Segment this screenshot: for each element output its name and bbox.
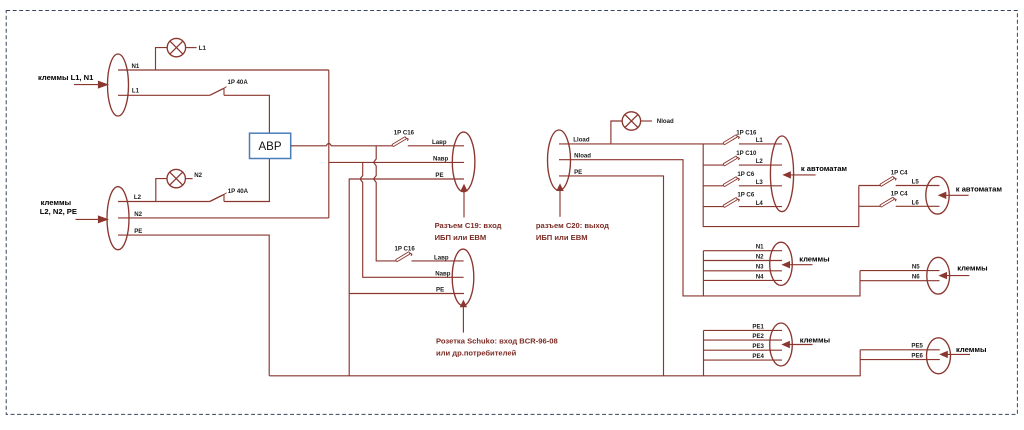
wire N comb riser xyxy=(702,251,704,296)
svg-text:1P C10: 1P C10 xyxy=(736,150,757,157)
svg-text:N5: N5 xyxy=(912,264,920,271)
wire PE C20 (down to PE bus) xyxy=(559,176,664,376)
wire QF4 to Schuko Lavr pin xyxy=(412,260,464,262)
svg-text:PE: PE xyxy=(435,172,443,179)
svg-text:L3: L3 xyxy=(756,179,764,186)
svg-text:Розетка Schuko: вход BCR-96-08: Розетка Schuko: вход BCR-96-08 xyxy=(436,337,558,346)
breaker QF3 1P C16 (C19 input) xyxy=(392,137,408,147)
svg-text:АВР: АВР xyxy=(258,141,281,153)
wire to pin L2 xyxy=(739,164,782,166)
wire PE6 xyxy=(860,359,940,361)
svg-text:L2: L2 xyxy=(756,158,764,165)
breaker QF1 1P 40A xyxy=(210,87,227,96)
arrow to C20 ellipse xyxy=(556,183,563,216)
svg-text:Lload: Lload xyxy=(573,137,590,144)
wire N6 xyxy=(860,280,940,282)
wire PE4 xyxy=(704,359,783,361)
wire N3 xyxy=(703,270,782,272)
wire N1/N2 vertical bus xyxy=(328,70,330,218)
wire dropper Lavr to Schuko breaker (hops over Navr and PE) xyxy=(374,146,396,261)
svg-text:клеммы: клеммы xyxy=(799,255,829,264)
svg-text:Nload: Nload xyxy=(574,153,591,160)
lamp HL2 xyxy=(156,169,193,201)
arrow клеммы (into X9) xyxy=(938,272,969,279)
breaker 1P C4 (row L5) xyxy=(880,176,896,186)
svg-text:клеммы: клеммы xyxy=(957,264,987,273)
arrow into connector X2 xyxy=(76,215,110,223)
wire N1 xyxy=(118,69,329,71)
wire Lload distribution bus xyxy=(703,144,859,227)
wire ABP output Lavr (hop over N bus) xyxy=(291,144,393,146)
svg-text:N6: N6 xyxy=(912,274,920,281)
arrow into connector X1 xyxy=(74,81,109,89)
svg-text:PE: PE xyxy=(574,169,582,176)
svg-text:1P C6: 1P C6 xyxy=(737,171,754,178)
svg-text:L6: L6 xyxy=(912,199,920,206)
svg-text:L4: L4 xyxy=(756,200,764,207)
svg-text:PE: PE xyxy=(436,287,444,294)
wire L2 xyxy=(118,201,210,203)
breaker 1P C10 (row L2) xyxy=(723,156,739,166)
connector X3 (разъем C19 ellipse) xyxy=(452,132,475,192)
svg-text:1P 40A: 1P 40A xyxy=(228,188,249,195)
breaker QF2 1P 40A xyxy=(210,193,227,202)
wire N2 xyxy=(703,260,782,262)
arrow к автоматам (into X7) xyxy=(938,192,969,199)
svg-text:L1: L1 xyxy=(199,45,207,52)
label Розетка Schuko xyxy=(436,337,558,358)
svg-text:L5: L5 xyxy=(912,179,920,186)
svg-text:ИБП или ЕВМ: ИБП или ЕВМ xyxy=(536,233,588,242)
wire PE5 xyxy=(860,349,940,351)
arrow клеммы (into X11) xyxy=(939,351,970,358)
label клеммы L2, N2, PE xyxy=(40,198,77,216)
svg-text:1P C6: 1P C6 xyxy=(737,192,754,199)
svg-text:N2: N2 xyxy=(756,253,764,260)
svg-text:1P 40A: 1P 40A xyxy=(228,79,249,86)
svg-text:PE6: PE6 xyxy=(911,353,923,360)
svg-text:N2: N2 xyxy=(194,172,202,179)
wire to pin L6 xyxy=(896,205,940,207)
svg-text:L2, N2, PE: L2, N2, PE xyxy=(40,207,77,216)
svg-text:N1: N1 xyxy=(756,244,764,251)
breaker 1P C4 (row L6) xyxy=(880,197,896,207)
wire N2 xyxy=(118,217,329,219)
wire to pin L4 xyxy=(739,206,782,208)
svg-text:клеммы: клеммы xyxy=(800,335,830,344)
wire N1 xyxy=(703,250,782,252)
svg-text:L2: L2 xyxy=(134,194,142,201)
svg-text:клеммы L1, N1: клеммы L1, N1 xyxy=(38,73,94,82)
label Разъем C19 xyxy=(435,221,502,242)
connector X1 (клеммы L1,N1 ellipse) xyxy=(108,54,129,116)
wire to pin L5 xyxy=(896,185,940,187)
wire PE1 xyxy=(704,329,783,331)
svg-text:1P C16: 1P C16 xyxy=(395,245,416,252)
svg-text:1P C4: 1P C4 xyxy=(891,170,908,177)
wire N4 xyxy=(703,279,782,281)
svg-text:или др.потребителей: или др.потребителей xyxy=(436,349,517,358)
wire to pin L1 xyxy=(739,143,782,145)
wire stub to breaker row L3 xyxy=(703,185,723,187)
connector X6 (к автоматам ellipse L1-L4) xyxy=(770,136,793,212)
wire L1 xyxy=(118,94,210,96)
wire dropper Navr to Schuko (hops over PE) xyxy=(360,162,464,277)
connector X10 (клеммы ellipse PE1-PE4) xyxy=(770,323,793,366)
svg-text:N1: N1 xyxy=(132,63,140,70)
svg-text:к автоматам: к автоматам xyxy=(956,184,1003,193)
svg-text:PE1: PE1 xyxy=(752,323,764,330)
svg-text:PE4: PE4 xyxy=(752,353,764,360)
arrow клеммы (into X10) xyxy=(781,341,812,348)
svg-text:PE3: PE3 xyxy=(752,343,764,350)
connector X2 (клеммы L2,N2,PE ellipse) xyxy=(107,187,129,250)
wire PE bottom bus xyxy=(269,350,860,376)
svg-text:Nавр: Nавр xyxy=(433,156,449,163)
wire PE from X2 down to PE bus xyxy=(118,235,269,376)
wire N5 xyxy=(860,270,940,272)
wire PE3 xyxy=(704,349,783,351)
svg-text:1P C16: 1P C16 xyxy=(394,129,415,136)
connector X4 (розетка Schuko ellipse) xyxy=(452,249,474,305)
svg-text:N3: N3 xyxy=(756,264,764,271)
wire stub to breaker L5 xyxy=(859,185,880,187)
svg-text:PE2: PE2 xyxy=(752,333,764,340)
lamp HL3 Nload xyxy=(611,112,652,144)
svg-text:Разъем С19: вход: Разъем С19: вход xyxy=(435,221,502,230)
lamp HL1 xyxy=(156,38,197,70)
wire QF2 to ABP bottom xyxy=(224,159,269,202)
connector X8 (клеммы ellipse N1-N4) xyxy=(770,242,793,285)
arrow к автоматам (into X6) xyxy=(782,171,815,178)
connector X5 (разъем C20 ellipse) xyxy=(548,130,571,190)
svg-text:к автоматам: к автоматам xyxy=(801,164,848,173)
wire stub to breaker L6 xyxy=(859,205,880,207)
svg-text:Nload: Nload xyxy=(657,118,674,125)
wire PE2 xyxy=(704,339,783,341)
wire QF1 to ABP top xyxy=(224,95,269,133)
arrow клеммы (into X8) xyxy=(781,261,812,268)
arrow to Schuko ellipse xyxy=(460,300,467,333)
connector X9 (клеммы ellipse N5-N6) xyxy=(927,257,950,294)
wire Nload (down and right to N comb) xyxy=(559,160,860,296)
svg-text:Lавр: Lавр xyxy=(434,255,449,262)
svg-text:1P C16: 1P C16 xyxy=(736,129,757,136)
svg-text:ИБП или ЕВМ: ИБП или ЕВМ xyxy=(435,233,487,242)
svg-text:Lавр: Lавр xyxy=(432,139,447,146)
wire to pin L3 xyxy=(739,185,782,187)
svg-text:Nавр: Nавр xyxy=(435,270,451,277)
svg-text:1P C4: 1P C4 xyxy=(891,191,908,198)
breaker QF4 1P C16 (Schuko) xyxy=(396,252,412,262)
connector X7 (к автоматам ellipse L5-L6) xyxy=(926,177,949,215)
svg-text:PE5: PE5 xyxy=(911,343,923,350)
svg-text:L1: L1 xyxy=(132,88,140,95)
svg-text:L1: L1 xyxy=(756,137,764,144)
AVR unit U1 (АВР box) xyxy=(250,133,291,158)
svg-text:N4: N4 xyxy=(756,273,764,280)
breaker 1P C6 (row L3) xyxy=(723,177,739,187)
label разъем C20 xyxy=(536,221,609,242)
arrow to C19 ellipse xyxy=(460,184,467,218)
wire PE comb riser xyxy=(703,330,705,375)
breaker 1P C6 (row L4) xyxy=(723,197,739,207)
wire stub to breaker row L4 xyxy=(703,206,723,208)
connector X11 (клеммы ellipse PE5-PE6) xyxy=(927,338,951,374)
wire stub to breaker row L2 xyxy=(703,164,723,166)
svg-text:N2: N2 xyxy=(134,211,142,218)
svg-text:разъем С20: выход: разъем С20: выход xyxy=(536,221,609,230)
wire PE branch to C19 and Schuko xyxy=(349,179,464,376)
wire QF3 to C19 Lavr pin xyxy=(408,145,464,147)
svg-text:клеммы: клеммы xyxy=(956,345,986,354)
wire Lload xyxy=(559,143,723,145)
svg-text:PE: PE xyxy=(134,228,142,235)
wire Navr (bus tap to C19) xyxy=(329,161,464,163)
breaker 1P C16 (row L1) xyxy=(723,135,739,145)
svg-text:клеммы: клеммы xyxy=(41,198,71,207)
